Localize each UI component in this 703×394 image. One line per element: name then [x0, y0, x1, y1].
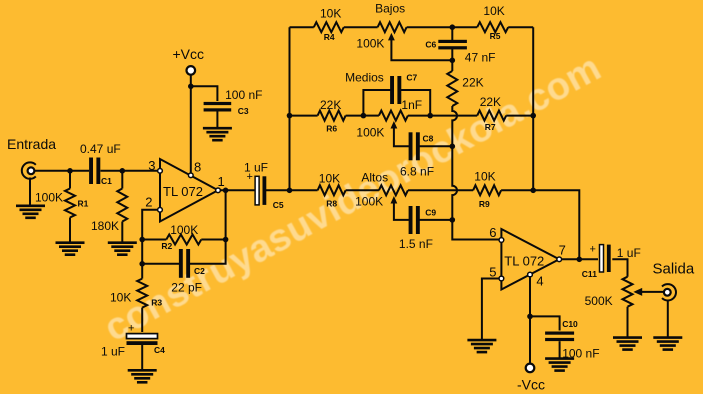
wire C7 node to pot	[363, 115, 379, 117]
svg-text:C4: C4	[154, 345, 165, 355]
wire R8 to pot	[346, 189, 379, 191]
svg-text:100 nF: 100 nF	[225, 88, 262, 102]
wire C8 right	[420, 145, 453, 147]
wire Vee junction to C10	[530, 316, 560, 330]
pin 4 label	[536, 273, 543, 288]
wire left bus vertical	[289, 27, 291, 190]
node C9 junction	[450, 217, 456, 223]
node feedback right junction	[223, 237, 229, 243]
wire output jack to ground	[667, 301, 669, 338]
resistor R9 10K	[473, 170, 501, 209]
wire right bus vertical	[532, 27, 534, 190]
svg-text:1: 1	[218, 174, 225, 189]
svg-text:TL 072: TL 072	[504, 253, 544, 268]
svg-text:10K: 10K	[474, 170, 495, 184]
svg-text:R6: R6	[326, 124, 337, 134]
node output2 junction	[577, 257, 583, 263]
wire C3 to ground	[216, 112, 218, 129]
pin 2 label	[145, 195, 152, 210]
wire input jack to ground	[29, 178, 31, 206]
node Vee junction	[527, 314, 533, 320]
resistor R8 10K	[318, 172, 346, 209]
svg-text:5: 5	[489, 265, 496, 280]
potentiometer Medios 100K	[356, 111, 409, 147]
wire R6 to C7 node	[346, 115, 364, 117]
svg-text:C8: C8	[423, 133, 434, 143]
node C7 left junction	[361, 113, 367, 119]
wire C2 left	[142, 263, 179, 265]
wire pin 4 down	[529, 276, 531, 316]
svg-text:Medios: Medios	[345, 71, 384, 85]
wire pot to C6 node	[407, 26, 453, 28]
resistor R5 10K	[477, 4, 508, 41]
resistor R7 22K	[477, 95, 506, 132]
svg-text:R4: R4	[324, 32, 335, 42]
svg-text:100K: 100K	[356, 37, 384, 51]
pin 4 circle	[528, 272, 533, 277]
svg-text:6: 6	[489, 225, 496, 240]
pin 5 circle	[499, 276, 504, 281]
wire medios row left	[290, 115, 318, 117]
node feedback left junction	[139, 237, 145, 243]
ground pin 5	[467, 340, 496, 352]
svg-text:7: 7	[559, 243, 566, 258]
svg-text:R7: R7	[485, 122, 496, 132]
wire right bus to output	[533, 190, 579, 259]
pin 6 circle	[499, 238, 504, 243]
svg-text:4: 4	[536, 273, 543, 288]
wire +Vcc to pin 8	[190, 75, 192, 176]
node B junction	[120, 168, 126, 174]
op-amp U1 TL 072	[160, 159, 218, 222]
potentiometer 500K	[585, 277, 664, 308]
wire Vcc junction to C3	[191, 86, 218, 101]
svg-text:100K: 100K	[356, 126, 384, 140]
svg-text:TL 072: TL 072	[163, 184, 203, 199]
svg-text:Salida: Salida	[653, 261, 695, 278]
svg-text:C9: C9	[425, 207, 436, 217]
pin 3 label	[148, 158, 155, 173]
node A junction	[67, 168, 73, 174]
resistor R4 10K	[314, 7, 344, 43]
node Entrada input jack J1	[7, 136, 56, 179]
pin 3 circle	[158, 168, 163, 173]
svg-text:C7: C7	[406, 72, 417, 82]
svg-text:Bajos: Bajos	[375, 2, 405, 16]
svg-text:10K: 10K	[110, 291, 131, 305]
wire R9 to right bus	[501, 189, 533, 191]
svg-text:10K: 10K	[319, 172, 340, 186]
wire R7 to right bus	[506, 115, 533, 117]
capacitor C6 47 nF	[425, 40, 495, 65]
svg-text:R2: R2	[161, 241, 172, 251]
svg-text:1 uF: 1 uF	[244, 161, 268, 175]
capacitor C8 6.8 nF	[400, 132, 434, 178]
pin 1 label	[218, 174, 225, 189]
svg-text:R1: R1	[78, 199, 89, 209]
capacitor C1 0.47 uF	[80, 142, 121, 186]
capacitor C10 100 nF	[545, 319, 599, 360]
wire pin 2 to feedback bus	[142, 210, 158, 240]
capacitor C5 1 uF electrolytic	[244, 161, 284, 211]
wire C7 branch right	[401, 90, 430, 116]
wire C7 branch left	[363, 90, 390, 116]
capacitor C2 22 pF	[171, 249, 205, 295]
svg-text:180K: 180K	[91, 219, 119, 233]
wire C10 to ground	[559, 341, 561, 358]
svg-text:+: +	[128, 323, 134, 335]
potentiometer Altos 100K	[355, 171, 409, 220]
capacitor C3 100 nF	[204, 88, 263, 116]
svg-text:1 uF: 1 uF	[617, 246, 641, 260]
svg-text:C1: C1	[101, 176, 112, 186]
svg-text:22K: 22K	[480, 95, 501, 109]
wire C5 to left bus	[266, 189, 291, 191]
wire C9 right	[420, 219, 453, 221]
svg-text:R3: R3	[151, 297, 162, 307]
svg-text:100K: 100K	[170, 223, 198, 237]
wire C6 bottom	[451, 49, 453, 62]
svg-text:10K: 10K	[483, 4, 504, 18]
node Vcc junction	[188, 84, 194, 90]
pin 2 circle	[158, 207, 163, 212]
svg-text:C11: C11	[582, 269, 597, 279]
ground 500K pot	[613, 338, 642, 350]
wire C2 right	[190, 240, 226, 264]
wire pin 7 to output node	[562, 258, 581, 260]
svg-text:R8: R8	[326, 198, 337, 208]
node C6 top junction	[450, 24, 456, 30]
node output1 junction	[223, 188, 229, 194]
wire R5 to right bus	[508, 26, 533, 28]
ground R1	[56, 243, 85, 255]
pin 1 circle	[216, 188, 221, 193]
node Salida output jack J2	[653, 261, 695, 301]
pin 8 label	[194, 160, 201, 175]
svg-text:+: +	[590, 244, 596, 256]
wire altos row right	[408, 189, 473, 191]
wire node B to op-amp pin 3	[122, 170, 158, 172]
pin 7 label	[559, 243, 566, 258]
svg-text:1.5 nF: 1.5 nF	[399, 237, 433, 251]
svg-text:C3: C3	[238, 106, 249, 116]
svg-text:100K: 100K	[35, 191, 63, 205]
node right bus medios junction	[530, 113, 536, 119]
ground C3	[203, 128, 232, 140]
svg-text:10K: 10K	[320, 7, 341, 21]
svg-text:R5: R5	[490, 31, 501, 41]
ground input jack	[16, 206, 45, 218]
wire C11 to pot	[612, 259, 627, 276]
svg-text:22K: 22K	[320, 98, 341, 112]
op-amp U2 TL 072	[501, 229, 559, 290]
svg-text:Entrada: Entrada	[7, 136, 56, 152]
node C6 bottom junction	[450, 58, 456, 64]
wire output1 down to feedback	[225, 190, 227, 239]
wire C4 to ground	[141, 345, 143, 371]
svg-text:2: 2	[145, 195, 152, 210]
wire 22K hop over medios and altos rows	[452, 106, 499, 240]
wire altos row left	[290, 189, 318, 191]
resistor R1 100K	[35, 171, 89, 243]
node C8 junction	[450, 144, 456, 150]
resistor R2 100K	[142, 223, 225, 251]
node left bus bottom junction	[287, 188, 293, 194]
wire C6 top	[451, 27, 453, 41]
resistor R2b 180K	[91, 171, 127, 243]
svg-text:R9: R9	[479, 199, 490, 209]
power terminal +Vcc	[173, 46, 205, 75]
svg-text:8: 8	[194, 160, 201, 175]
svg-text:C6: C6	[425, 40, 436, 50]
capacitor C9 1.5 nF	[399, 206, 436, 251]
wire R4 to pot	[344, 26, 378, 28]
svg-text:C5: C5	[273, 200, 284, 210]
wire Vee to terminal	[529, 316, 531, 363]
svg-text:47 nF: 47 nF	[465, 50, 496, 64]
node C2 left junction	[139, 261, 145, 267]
pin 5 label	[489, 265, 496, 280]
wire output node to C11	[579, 258, 598, 260]
svg-text:22 pF: 22 pF	[171, 281, 202, 295]
wire medios row right	[408, 115, 477, 117]
wire pin 5 to ground	[482, 279, 499, 341]
wire node A to C1	[70, 170, 89, 172]
wire bajos row right	[452, 26, 477, 28]
capacitor C11 1 uF electrolytic	[582, 244, 641, 280]
node right bus altos junction	[530, 188, 536, 194]
pin 7 circle	[557, 257, 562, 262]
svg-text:Altos: Altos	[361, 171, 388, 185]
wire pot to ground	[627, 307, 629, 338]
svg-text:+Vcc: +Vcc	[173, 46, 205, 62]
svg-text:1 uF: 1 uF	[101, 344, 125, 358]
wire bajos row left	[290, 26, 314, 28]
svg-text:22K: 22K	[462, 75, 483, 89]
wire input jack to node A	[34, 170, 70, 172]
svg-text:6.8 nF: 6.8 nF	[400, 164, 434, 178]
wire C1 to node B	[101, 170, 123, 172]
node left bus medios junction	[287, 113, 293, 119]
svg-text:1nF: 1nF	[401, 98, 422, 112]
power terminal -Vcc	[517, 364, 545, 393]
ground 180K	[108, 243, 137, 255]
svg-text:0.47 uF: 0.47 uF	[80, 142, 121, 156]
resistor R6 22K	[318, 98, 346, 134]
ground C4	[128, 370, 157, 382]
wire pin 1 to C5	[221, 189, 257, 191]
pin 8 circle	[188, 173, 193, 178]
svg-text:100K: 100K	[355, 194, 383, 208]
ground output jack	[653, 338, 682, 350]
pin 6 label	[489, 225, 496, 240]
resistor R22K vertical 22K	[447, 60, 483, 106]
node C7 right junction	[427, 113, 433, 119]
svg-text:C2: C2	[194, 266, 205, 276]
resistor R3 10K	[110, 264, 162, 332]
svg-text:C10: C10	[562, 319, 578, 329]
wire feedback bus down left	[141, 240, 143, 264]
capacitor C4 1 uF electrolytic	[101, 323, 165, 359]
capacitor C7 1nF	[345, 71, 422, 112]
ground C10	[545, 359, 574, 371]
svg-text:500K: 500K	[585, 294, 613, 308]
svg-text:-Vcc: -Vcc	[517, 376, 545, 392]
svg-text:3: 3	[148, 158, 155, 173]
potentiometer Bajos 100K	[356, 2, 452, 61]
